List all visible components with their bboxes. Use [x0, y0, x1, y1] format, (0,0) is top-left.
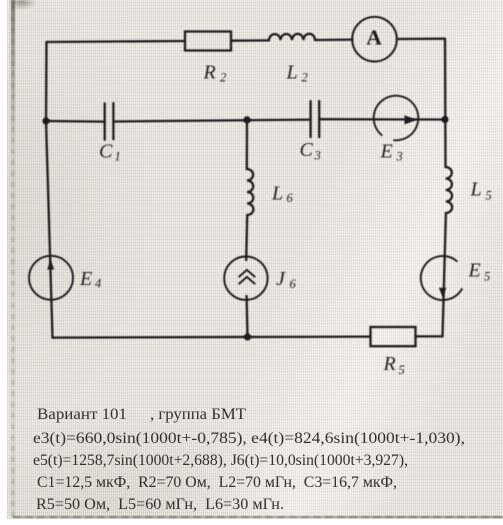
svg-text:R5=50 Ом, L5=60 мГн, L6=30 м: R5=50 Ом, L5=60 мГн, L6=30 мГн. [36, 496, 284, 513]
svg-text:E: E [380, 141, 393, 163]
svg-text:Вариант 101: Вариант 101 [37, 406, 127, 423]
svg-text:e3(t)=660,0sin(1000t+-0,785),: e3(t)=660,0sin(1000t+-0,785), e4(t)=824,… [33, 430, 465, 447]
svg-text:2: 2 [220, 71, 226, 85]
svg-text:, группа БМТ: , группа БМТ [150, 406, 247, 423]
svg-text:J: J [276, 268, 286, 290]
svg-text:6: 6 [287, 191, 294, 205]
svg-text:A: A [366, 26, 382, 50]
svg-text:2: 2 [302, 71, 308, 85]
svg-text:4: 4 [95, 277, 101, 291]
svg-text:C1=12,5 мкФ, R2=70 Ом, L2=70: C1=12,5 мкФ, R2=70 Ом, L2=70 мГн, C3=16,… [37, 474, 397, 491]
svg-text:6: 6 [290, 277, 297, 291]
svg-text:5: 5 [486, 189, 492, 203]
svg-text:1: 1 [115, 150, 121, 164]
svg-text:3: 3 [314, 149, 321, 163]
svg-text:R: R [203, 62, 216, 84]
svg-text:e5(t)=1258,7sin(1000t+2,688),: e5(t)=1258,7sin(1000t+2,688), J6(t)=10,0… [33, 452, 408, 469]
svg-text:3: 3 [396, 150, 403, 164]
svg-text:5: 5 [484, 270, 490, 284]
svg-text:5: 5 [399, 363, 405, 377]
svg-text:L: L [286, 62, 298, 84]
svg-text:L: L [470, 179, 482, 201]
svg-text:E: E [79, 268, 92, 290]
svg-text:C: C [300, 139, 314, 161]
svg-text:E: E [468, 260, 481, 282]
svg-text:C: C [99, 141, 113, 163]
svg-text:R: R [383, 353, 396, 375]
svg-text:L: L [271, 183, 283, 205]
